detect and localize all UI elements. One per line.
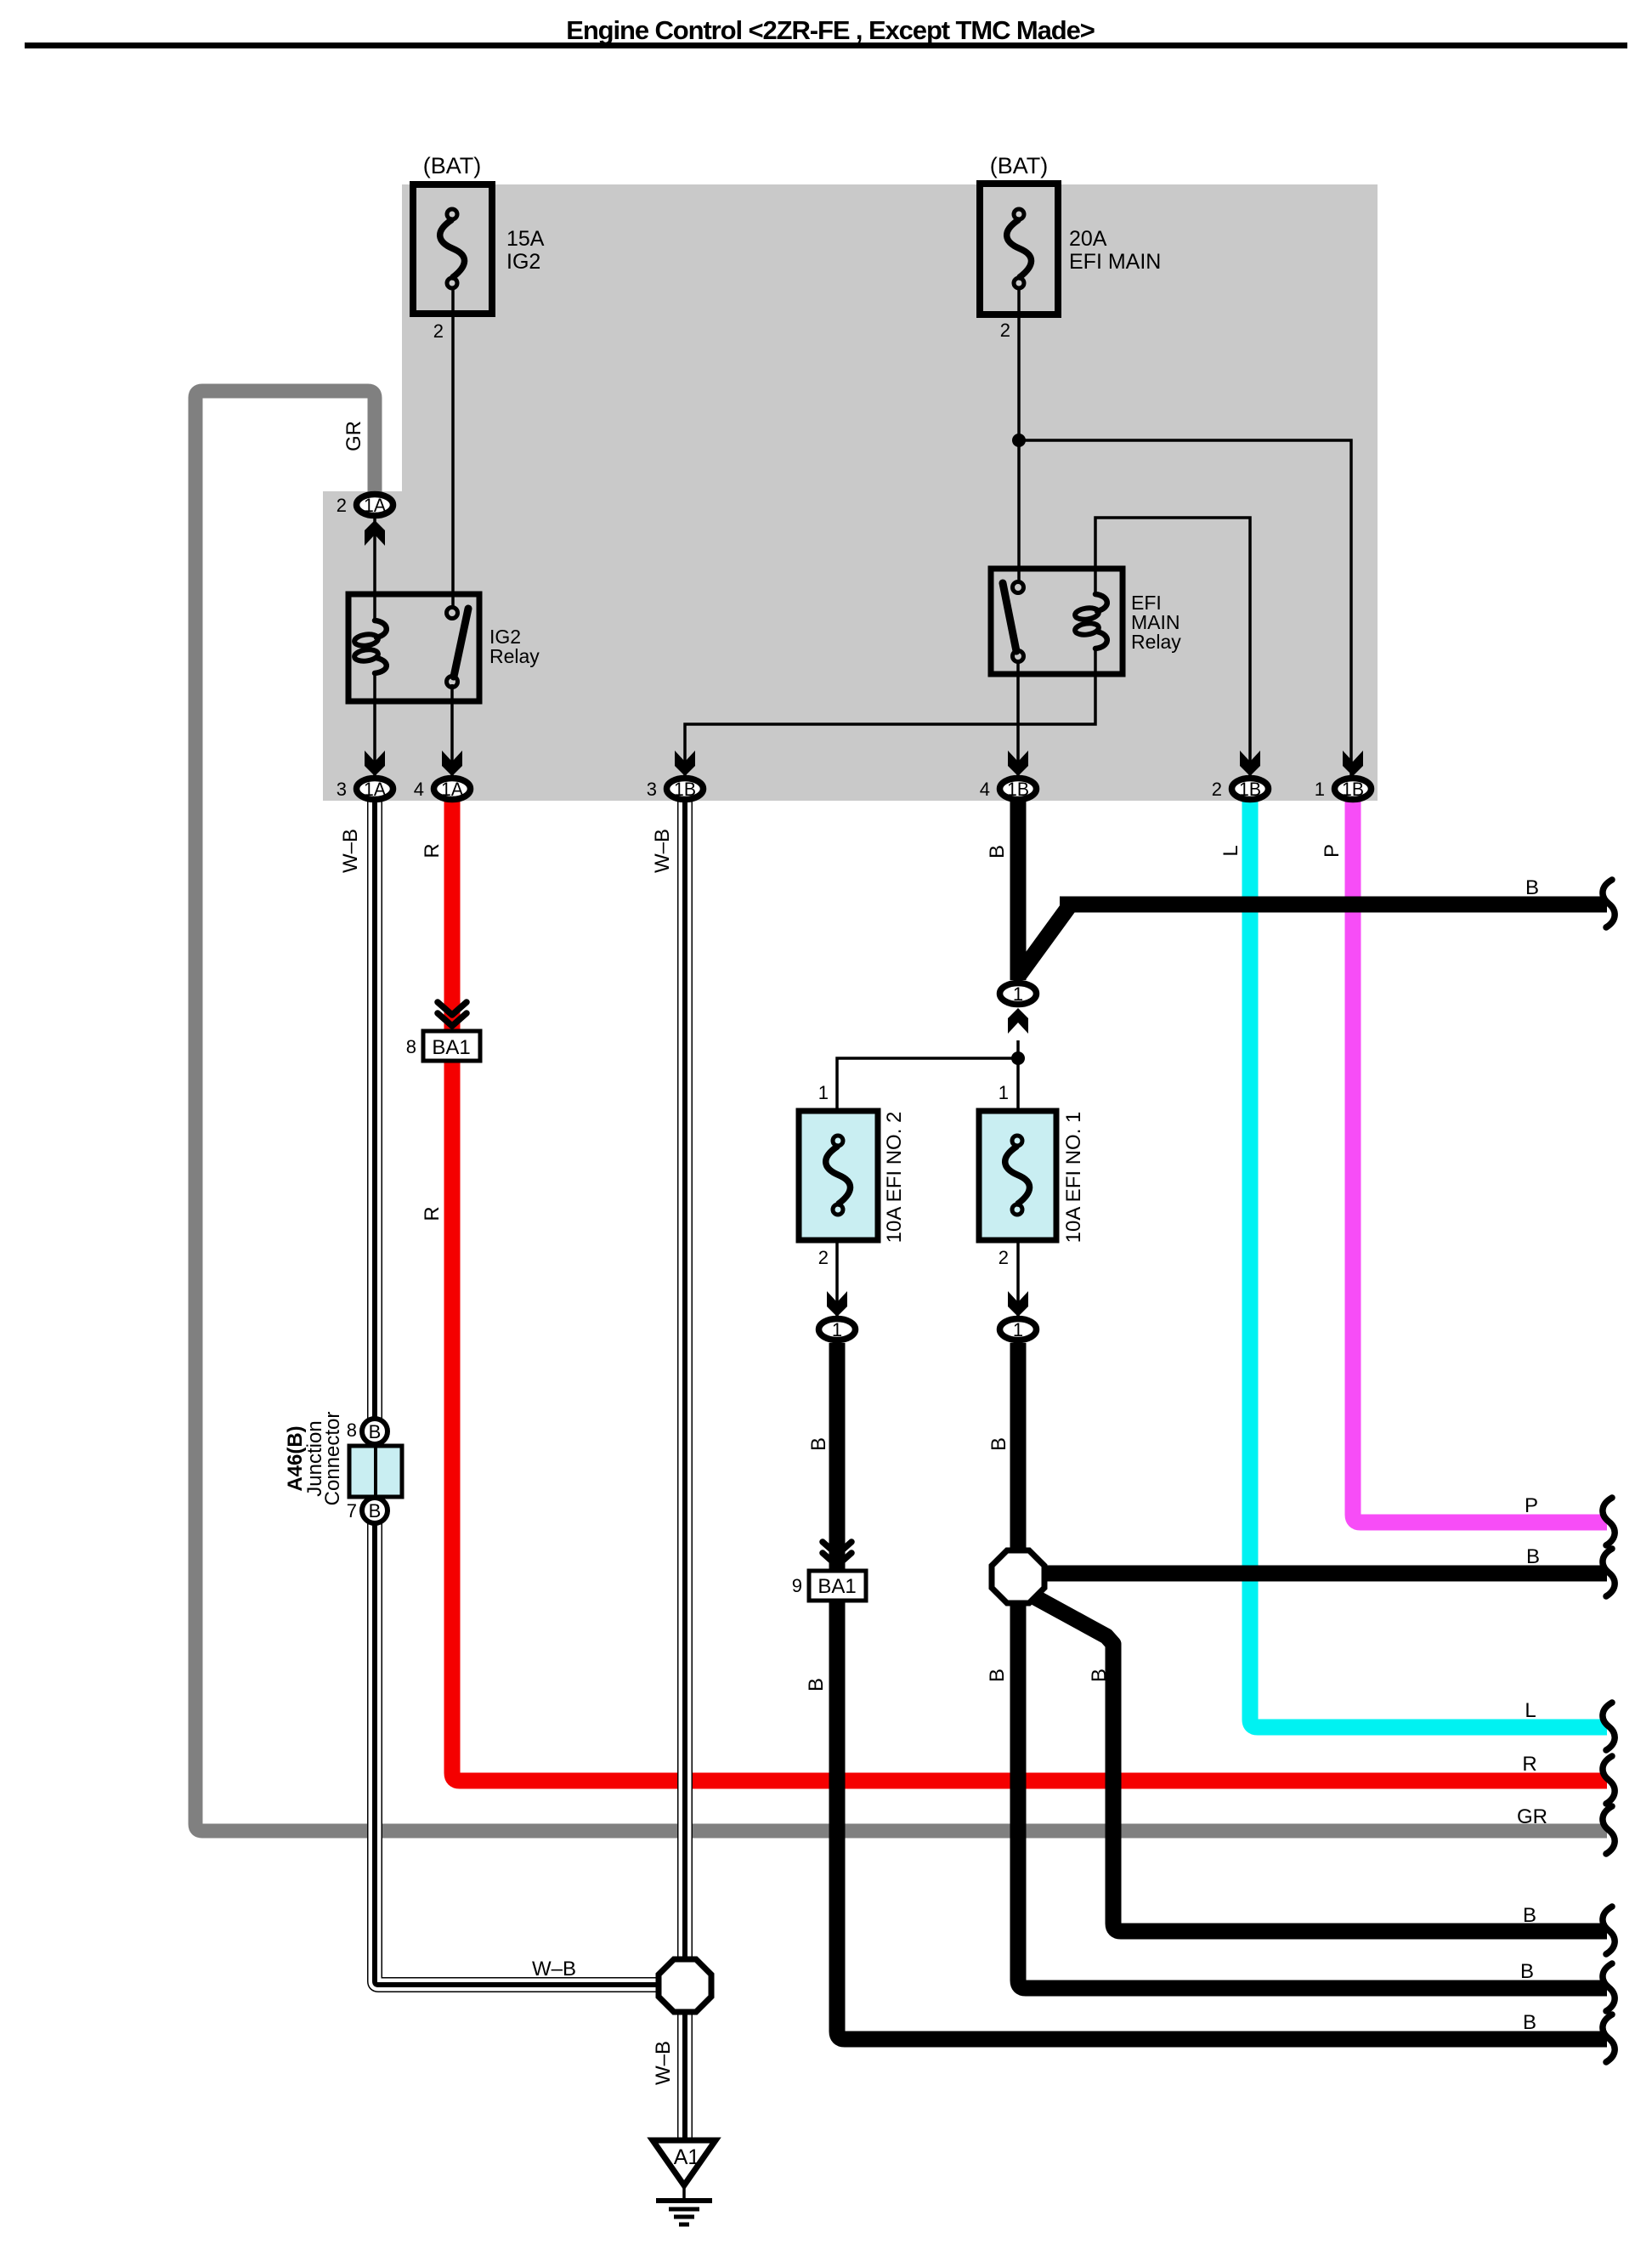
wire GR: from connector 1A pin2 up, across, down left side and along bottom to right edge bbox=[195, 391, 1607, 1831]
ground A1 bbox=[653, 2140, 716, 2185]
svg-text:20A: 20A bbox=[1069, 227, 1107, 251]
svg-text:1B: 1B bbox=[1342, 779, 1364, 800]
svg-text:2: 2 bbox=[818, 1247, 829, 1268]
wire L: from connector 1B pin2 down and across to right edge bbox=[1250, 800, 1607, 1727]
svg-text:1B: 1B bbox=[1007, 779, 1029, 800]
wire: EFI MAIN relay switch bottom to connector 1B pin4 bbox=[1016, 660, 1020, 777]
svg-text:2: 2 bbox=[999, 1247, 1009, 1268]
svg-text:B: B bbox=[986, 1669, 1009, 1682]
svg-text:W–B: W–B bbox=[652, 2041, 675, 2085]
wire: EFI relay output to EFI NO.1 / NO.2 fuses bbox=[1016, 1040, 1020, 1111]
relay EFI MAIN switch bbox=[1013, 582, 1024, 593]
arrow into connector oval 1A pin4 bbox=[442, 751, 462, 776]
wire B: connector 1B pin4 down to junction oval, with branch to right edge bbox=[1010, 800, 1027, 980]
wire: fuse EFI MAIN to relay switch bbox=[1017, 289, 1021, 583]
wire W-B: connector 1A pin3 down and across to ground octagon bbox=[375, 800, 671, 1985]
wire: EFI MAIN relay coil top to connector 1B pin2 bbox=[1095, 518, 1250, 777]
svg-text:GR: GR bbox=[1517, 1805, 1547, 1828]
svg-text:3: 3 bbox=[337, 779, 347, 800]
relay EFI MAIN box bbox=[991, 569, 1123, 674]
arrow into oval 1 below EFI NO.2 fuse bbox=[827, 1291, 847, 1317]
wire B: octagon joint bottom to right edge bbox=[1018, 1600, 1607, 1988]
wire: IG2 relay coil bottom to connector 1A pin3 bbox=[373, 673, 376, 777]
svg-text:1: 1 bbox=[999, 1082, 1009, 1103]
wire: fuse IG2 to relay switch bbox=[451, 289, 455, 607]
arrow into connector oval 1A pin3 bbox=[365, 751, 385, 776]
splice BA1 no.8 on R wire bbox=[423, 1031, 480, 1061]
relay IG2 box bbox=[348, 594, 479, 701]
relay IG2 coil bbox=[375, 620, 387, 637]
svg-text:B: B bbox=[807, 1437, 830, 1451]
node: junction dot above EFI NO.1 fuse bbox=[1011, 1051, 1025, 1065]
connector oval 1B pin1 bbox=[1335, 779, 1372, 801]
svg-text:2: 2 bbox=[433, 320, 444, 342]
svg-text:1: 1 bbox=[818, 1082, 829, 1103]
oval 1 below EFI NO.2 fuse bbox=[819, 1319, 856, 1341]
svg-text:1: 1 bbox=[1013, 983, 1023, 1005]
wire: EFI NO.2 fuse to oval 1 bbox=[835, 1240, 839, 1317]
wire P: from connector 1B pin1 down and across to right edge bbox=[1353, 800, 1607, 1522]
svg-text:10A EFI NO. 2: 10A EFI NO. 2 bbox=[883, 1112, 906, 1244]
svg-text:R: R bbox=[1522, 1753, 1536, 1776]
splice BA1 no.9 on B wire bbox=[809, 1571, 866, 1601]
svg-text:P: P bbox=[1525, 1494, 1538, 1517]
svg-text:(BAT): (BAT) bbox=[423, 153, 482, 178]
svg-text:1B: 1B bbox=[674, 779, 696, 800]
connector oval 1A pin4 bbox=[434, 779, 471, 801]
joint octagon on W-B wires bbox=[659, 1959, 711, 2012]
continuation curl B octagon bottom bbox=[1603, 1963, 1615, 2011]
svg-text:B: B bbox=[1523, 1904, 1536, 1927]
arrow into oval 1 below B branch bbox=[1008, 1008, 1028, 1034]
arrow into connector oval 1B pin2 bbox=[1240, 751, 1260, 776]
svg-text:P: P bbox=[1321, 844, 1344, 858]
svg-text:Relay: Relay bbox=[489, 645, 540, 667]
arrow into oval 1 below EFI NO.1 fuse bbox=[1008, 1291, 1028, 1317]
svg-text:B: B bbox=[987, 1437, 1010, 1451]
svg-text:W–B: W–B bbox=[651, 829, 674, 873]
fuse 10A EFI NO.2 bbox=[799, 1111, 878, 1240]
wire B: octagon joint diagonal branch down to right edge bbox=[1033, 1596, 1607, 1931]
svg-text:1: 1 bbox=[1315, 779, 1325, 800]
continuation curl B BA1 branch bbox=[1603, 2014, 1615, 2062]
wire B: oval 1 (EFI NO.2) down through BA1 to bottom right edge bbox=[829, 1343, 846, 1571]
fuse 10A EFI NO.1 bbox=[979, 1111, 1056, 1240]
fuse 15A IG2 bbox=[413, 184, 492, 314]
svg-text:IG2: IG2 bbox=[506, 250, 540, 274]
svg-text:R: R bbox=[421, 1206, 444, 1221]
wire: IG2 relay switch bottom to connector 1A pin4 bbox=[450, 684, 454, 777]
continuation curl B diag branch bbox=[1603, 1907, 1615, 1954]
connector oval 1A pin3 bbox=[357, 779, 393, 801]
svg-text:Relay: Relay bbox=[1131, 631, 1181, 653]
svg-text:A1: A1 bbox=[674, 2145, 700, 2169]
splice chevrons BA1 no.8 bbox=[438, 1002, 467, 1015]
svg-text:3: 3 bbox=[647, 779, 657, 800]
connector oval 1A pin2 bbox=[357, 495, 393, 517]
svg-text:W–B: W–B bbox=[532, 1958, 576, 1980]
svg-text:10A EFI NO. 1: 10A EFI NO. 1 bbox=[1062, 1112, 1085, 1244]
wire: IG2 relay coil top to connector 1A pin2 bbox=[373, 517, 376, 620]
svg-text:8: 8 bbox=[406, 1036, 416, 1057]
joint octagon on B wires bbox=[992, 1550, 1044, 1603]
relay EFI MAIN coil bbox=[1095, 594, 1107, 611]
svg-text:R: R bbox=[421, 843, 444, 858]
svg-text:GR: GR bbox=[342, 421, 365, 451]
svg-text:L: L bbox=[1525, 1699, 1536, 1722]
svg-text:B: B bbox=[805, 1678, 828, 1691]
svg-text:1A: 1A bbox=[441, 779, 463, 800]
svg-text:B: B bbox=[369, 1421, 382, 1442]
svg-text:B: B bbox=[369, 1500, 382, 1521]
svg-text:BA1: BA1 bbox=[818, 1575, 856, 1598]
wire R: from connector 1A pin4 down and across to right edge bbox=[452, 800, 1607, 1781]
svg-text:B: B bbox=[986, 845, 1009, 858]
connector oval 1B pin2 bbox=[1232, 779, 1269, 801]
svg-text:4: 4 bbox=[414, 779, 424, 800]
svg-text:EFI MAIN: EFI MAIN bbox=[1069, 250, 1161, 274]
arrow into connector oval 1B pin4 bbox=[1008, 751, 1028, 776]
oval 1 above EFI fuses bbox=[1000, 983, 1037, 1006]
svg-text:Connector: Connector bbox=[321, 1412, 344, 1506]
splice chevrons BA1 no.9 bbox=[823, 1542, 851, 1555]
svg-text:4: 4 bbox=[980, 779, 990, 800]
svg-text:8: 8 bbox=[347, 1419, 357, 1441]
svg-text:1: 1 bbox=[1013, 1319, 1023, 1340]
svg-text:(BAT): (BAT) bbox=[990, 153, 1049, 178]
svg-text:BA1: BA1 bbox=[432, 1036, 470, 1059]
svg-text:15A: 15A bbox=[506, 227, 545, 251]
wire: EFI MAIN relay coil bottom to connector 1B pin3 bbox=[685, 649, 1095, 777]
svg-text:1A: 1A bbox=[364, 495, 386, 516]
svg-text:B: B bbox=[1088, 1669, 1111, 1682]
svg-text:7: 7 bbox=[347, 1500, 357, 1521]
oval 1 below EFI NO.1 fuse bbox=[1000, 1319, 1037, 1341]
svg-text:B: B bbox=[1520, 1960, 1534, 1983]
wire W-B: connector 1B pin3 down to ground octagon bbox=[677, 800, 693, 1963]
relay IG2 switch bbox=[447, 608, 458, 619]
svg-text:B: B bbox=[1525, 876, 1539, 899]
fuse 20A EFI MAIN bbox=[980, 184, 1058, 314]
svg-text:1A: 1A bbox=[364, 779, 386, 800]
continuation curl L bbox=[1603, 1703, 1615, 1750]
wire: EFI NO.1 fuse to oval 1 bbox=[1016, 1240, 1020, 1317]
arrow into connector oval 1B pin1 bbox=[1343, 751, 1363, 776]
svg-text:B: B bbox=[1523, 2011, 1536, 2034]
wire W-B: octagon to ground A1 bbox=[677, 2008, 693, 2139]
arrow into connector 1A pin2 bbox=[365, 520, 385, 546]
continuation curl R bbox=[1603, 1756, 1615, 1804]
svg-text:1B: 1B bbox=[1239, 779, 1261, 800]
wire: battery feed branch to connector 1B pin1 bbox=[1019, 440, 1351, 777]
svg-text:9: 9 bbox=[792, 1575, 802, 1596]
svg-text:B: B bbox=[1526, 1545, 1540, 1568]
gray harness background region bbox=[402, 184, 1378, 801]
svg-text:2: 2 bbox=[1212, 779, 1222, 800]
wire B: octagon joint right branch to right edge bbox=[1041, 1566, 1607, 1582]
arrow into connector oval 1B pin3 bbox=[675, 751, 695, 776]
wire B: oval 1 (EFI NO.1) down to octagon joint bbox=[1010, 1343, 1027, 1554]
svg-text:1: 1 bbox=[832, 1319, 842, 1340]
connector oval 1B pin3 bbox=[667, 779, 704, 801]
continuation curl B upper bbox=[1603, 880, 1615, 927]
svg-text:2: 2 bbox=[1000, 320, 1010, 341]
svg-text:2: 2 bbox=[337, 495, 347, 516]
svg-text:W–B: W–B bbox=[339, 829, 362, 873]
continuation curl B octagon branch bbox=[1603, 1549, 1615, 1596]
connector oval 1B pin4 bbox=[1000, 779, 1037, 801]
svg-text:Engine Control <2ZR-FE , Excep: Engine Control <2ZR-FE , Except TMC Made… bbox=[566, 15, 1094, 45]
node: junction dot on EFI MAIN feed bbox=[1012, 433, 1026, 447]
svg-text:L: L bbox=[1219, 845, 1242, 856]
continuation curl P bbox=[1603, 1498, 1615, 1545]
continuation curl GR bbox=[1603, 1806, 1615, 1854]
junction connector A46(B) bbox=[349, 1446, 402, 1497]
